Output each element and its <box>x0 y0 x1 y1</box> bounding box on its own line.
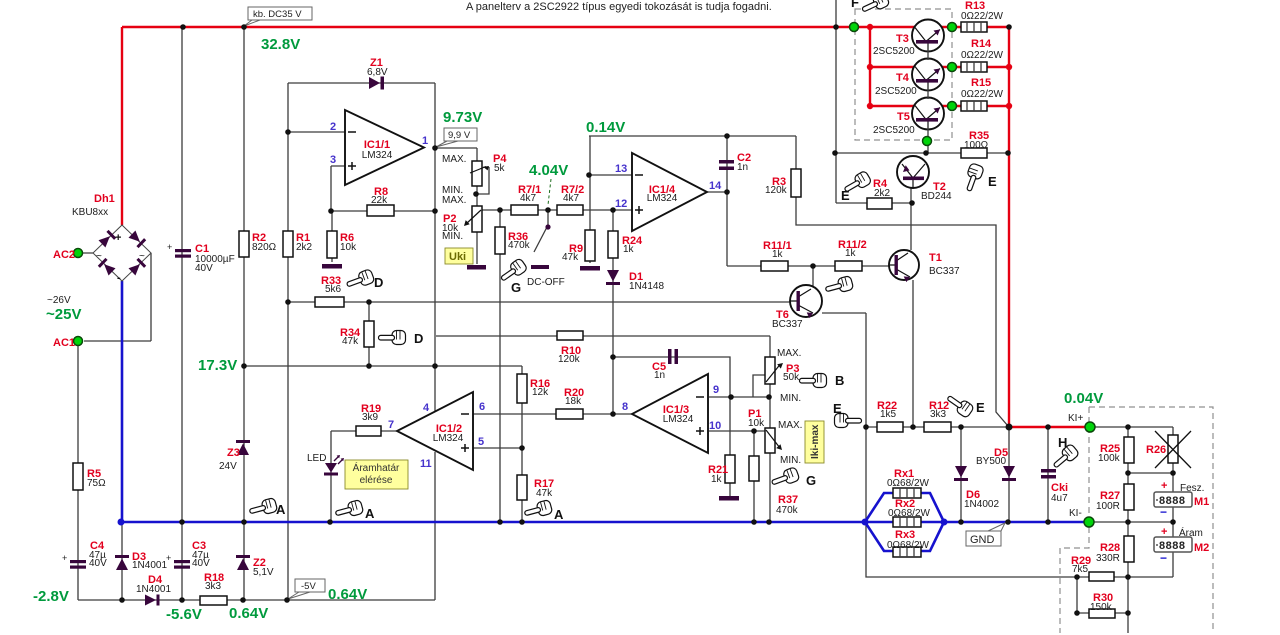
svg-text:4.04V: 4.04V <box>529 162 568 179</box>
svg-text:0Ω22/2W: 0Ω22/2W <box>961 50 1004 61</box>
svg-text:9.73V: 9.73V <box>443 109 482 126</box>
svg-text:4u7: 4u7 <box>1051 493 1068 504</box>
svg-text:M2: M2 <box>1194 542 1209 554</box>
svg-text:32.8V: 32.8V <box>261 36 300 53</box>
svg-text:T4: T4 <box>896 72 910 84</box>
svg-text:1N4001: 1N4001 <box>132 560 167 571</box>
svg-text:330R: 330R <box>1096 553 1120 564</box>
svg-text:H: H <box>1058 435 1067 450</box>
svg-text:KI+: KI+ <box>1068 413 1083 424</box>
svg-text:+: + <box>62 553 67 563</box>
svg-text:820Ω: 820Ω <box>252 242 277 253</box>
svg-text:D: D <box>414 331 423 346</box>
svg-text:120k: 120k <box>765 185 788 196</box>
svg-text:24V: 24V <box>219 461 237 472</box>
svg-text:F: F <box>851 0 859 10</box>
svg-text:Fesz.: Fesz. <box>1180 483 1204 494</box>
svg-text:AC2: AC2 <box>53 249 75 261</box>
svg-text:9,9 V: 9,9 V <box>448 130 471 141</box>
svg-text:0.14V: 0.14V <box>586 119 625 136</box>
svg-text:18k: 18k <box>565 396 582 407</box>
svg-text:50k: 50k <box>783 372 800 383</box>
svg-text:~: ~ <box>139 251 145 262</box>
svg-text:150k: 150k <box>1090 602 1113 613</box>
svg-text:47k: 47k <box>342 336 359 347</box>
svg-text:40V: 40V <box>192 558 210 569</box>
svg-text:A: A <box>276 502 286 517</box>
svg-text:470k: 470k <box>776 505 799 516</box>
svg-text:5: 5 <box>478 436 484 448</box>
svg-text:3k9: 3k9 <box>362 412 379 423</box>
svg-text:0Ω22/2W: 0Ω22/2W <box>961 89 1004 100</box>
svg-text:R14: R14 <box>971 38 992 50</box>
svg-text:LM324: LM324 <box>362 150 393 161</box>
svg-text:T1: T1 <box>929 252 942 264</box>
svg-text:14: 14 <box>709 180 722 192</box>
svg-text:-5.6V: -5.6V <box>166 606 202 623</box>
svg-text:1N4001: 1N4001 <box>136 584 171 595</box>
svg-text:Uki: Uki <box>449 251 466 263</box>
svg-text:Áram: Áram <box>1179 526 1203 539</box>
svg-text:7k5: 7k5 <box>1072 564 1089 575</box>
svg-text:-2.8V: -2.8V <box>33 588 69 605</box>
svg-text:17.3V: 17.3V <box>198 357 237 374</box>
svg-text:2SC5200: 2SC5200 <box>873 125 915 136</box>
svg-text:8: 8 <box>622 401 628 413</box>
svg-text:~: ~ <box>96 251 102 262</box>
svg-text:1n: 1n <box>737 162 748 173</box>
svg-text:E: E <box>988 174 997 189</box>
svg-text:2k2: 2k2 <box>296 242 313 253</box>
svg-text:0Ω68/2W: 0Ω68/2W <box>887 478 930 489</box>
svg-text:T5: T5 <box>897 111 910 123</box>
svg-text:~26V: ~26V <box>47 295 71 306</box>
svg-text:10k: 10k <box>340 242 357 253</box>
svg-text:2SC5200: 2SC5200 <box>873 46 915 57</box>
svg-text:11: 11 <box>420 458 432 470</box>
svg-text:1k5: 1k5 <box>880 409 897 420</box>
svg-text:M1: M1 <box>1194 496 1209 508</box>
svg-text:Dh1: Dh1 <box>94 193 115 205</box>
svg-text:+: + <box>1161 480 1167 492</box>
svg-text:G: G <box>806 473 816 488</box>
svg-text:1k: 1k <box>711 474 723 485</box>
svg-text:120k: 120k <box>558 354 581 365</box>
svg-text:1n: 1n <box>654 370 665 381</box>
svg-text:kb. DC35 V: kb. DC35 V <box>253 9 302 20</box>
svg-text:MIN.: MIN. <box>442 231 463 242</box>
svg-text:0Ω68/2W: 0Ω68/2W <box>888 508 931 519</box>
svg-text:−: − <box>1160 505 1167 519</box>
svg-text:MAX.: MAX. <box>778 420 802 431</box>
svg-text:2k2: 2k2 <box>874 188 891 199</box>
svg-text:Z3: Z3 <box>227 447 240 459</box>
svg-text:DC-OFF: DC-OFF <box>527 277 565 288</box>
svg-text:2: 2 <box>330 121 336 133</box>
svg-text:1k: 1k <box>772 249 784 260</box>
svg-text:6,8V: 6,8V <box>367 67 388 78</box>
svg-text:Áramhatár: Áramhatár <box>353 461 400 474</box>
svg-text:MAX.: MAX. <box>442 195 466 206</box>
svg-text:R26: R26 <box>1146 444 1166 456</box>
svg-text:AC1: AC1 <box>53 337 75 349</box>
svg-text:100k: 100k <box>1098 453 1121 464</box>
svg-text:G: G <box>511 280 521 295</box>
svg-text:R15: R15 <box>971 77 991 89</box>
svg-text:MIN.: MIN. <box>780 393 801 404</box>
svg-text:13: 13 <box>615 163 627 175</box>
svg-text:BD244: BD244 <box>921 191 952 202</box>
svg-text:12: 12 <box>615 198 627 210</box>
svg-text:T3: T3 <box>896 33 909 45</box>
svg-text:+: + <box>167 242 172 252</box>
svg-text:Iki-max: Iki-max <box>810 424 821 459</box>
svg-text:4: 4 <box>423 402 430 414</box>
svg-text:470k: 470k <box>508 240 531 251</box>
svg-text:4k7: 4k7 <box>520 193 537 204</box>
svg-text:LED: LED <box>307 453 326 464</box>
svg-text:7: 7 <box>388 419 394 431</box>
svg-text:0Ω22/2W: 0Ω22/2W <box>961 11 1004 22</box>
svg-text:1N4002: 1N4002 <box>964 499 999 510</box>
svg-text:-5V: -5V <box>301 581 316 592</box>
svg-text:40V: 40V <box>195 263 213 274</box>
svg-text:BY500: BY500 <box>976 456 1006 467</box>
svg-text:5,1V: 5,1V <box>253 567 274 578</box>
svg-text:LM324: LM324 <box>663 414 694 425</box>
svg-text:E: E <box>841 188 850 203</box>
svg-text:3k3: 3k3 <box>930 409 947 420</box>
svg-text:0.64V: 0.64V <box>328 586 367 603</box>
svg-text:3: 3 <box>330 154 336 166</box>
svg-text:5k6: 5k6 <box>325 284 342 295</box>
svg-text:47k: 47k <box>536 488 553 499</box>
svg-text:0Ω68/2W: 0Ω68/2W <box>887 540 930 551</box>
svg-text:1k: 1k <box>623 244 635 255</box>
svg-text:LM324: LM324 <box>647 193 678 204</box>
svg-text:0.64V: 0.64V <box>229 605 268 622</box>
svg-text:KBU8xx: KBU8xx <box>72 207 108 218</box>
svg-text:1N4148: 1N4148 <box>629 281 664 292</box>
svg-text:22k: 22k <box>371 195 388 206</box>
svg-text:GND: GND <box>970 534 995 546</box>
svg-text:D: D <box>374 275 383 290</box>
svg-text:MIN.: MIN. <box>780 455 801 466</box>
svg-text:-: - <box>117 272 121 284</box>
svg-text:+: + <box>115 232 121 244</box>
svg-text:75Ω: 75Ω <box>87 478 106 489</box>
svg-text:47k: 47k <box>562 252 579 263</box>
svg-text:100Ω: 100Ω <box>964 140 989 151</box>
svg-text:4k7: 4k7 <box>563 193 580 204</box>
svg-text:12k: 12k <box>532 387 549 398</box>
svg-text:1k: 1k <box>845 248 857 259</box>
svg-text:elérése: elérése <box>360 475 393 486</box>
svg-text:0.04V: 0.04V <box>1064 390 1103 407</box>
svg-text:KI-: KI- <box>1069 508 1082 519</box>
svg-text:~25V: ~25V <box>46 306 81 323</box>
svg-text:40V: 40V <box>89 558 107 569</box>
svg-text:10k: 10k <box>748 418 765 429</box>
svg-text:2SC5200: 2SC5200 <box>875 86 917 97</box>
svg-text:A panelterv a 2SC2922 típus eg: A panelterv a 2SC2922 típus egyedi tokoz… <box>466 1 772 13</box>
svg-text:6: 6 <box>479 401 485 413</box>
svg-text:E: E <box>833 401 842 416</box>
svg-text:A: A <box>554 507 564 522</box>
svg-text:1: 1 <box>422 135 428 147</box>
svg-text:BC337: BC337 <box>772 319 803 330</box>
svg-text:A: A <box>365 506 375 521</box>
svg-text:+: + <box>1161 526 1167 538</box>
svg-text:3k3: 3k3 <box>205 581 222 592</box>
svg-text:−: − <box>1160 551 1167 565</box>
svg-text:100R: 100R <box>1096 501 1120 512</box>
svg-text:MAX.: MAX. <box>777 348 801 359</box>
svg-text:E: E <box>976 400 985 415</box>
svg-text:B: B <box>835 373 844 388</box>
svg-text:10: 10 <box>709 420 721 432</box>
svg-text:MAX.: MAX. <box>442 154 466 165</box>
svg-text:5k: 5k <box>494 163 506 174</box>
svg-text:9: 9 <box>713 384 719 396</box>
svg-text:BC337: BC337 <box>929 266 960 277</box>
svg-text:LM324: LM324 <box>433 433 464 444</box>
